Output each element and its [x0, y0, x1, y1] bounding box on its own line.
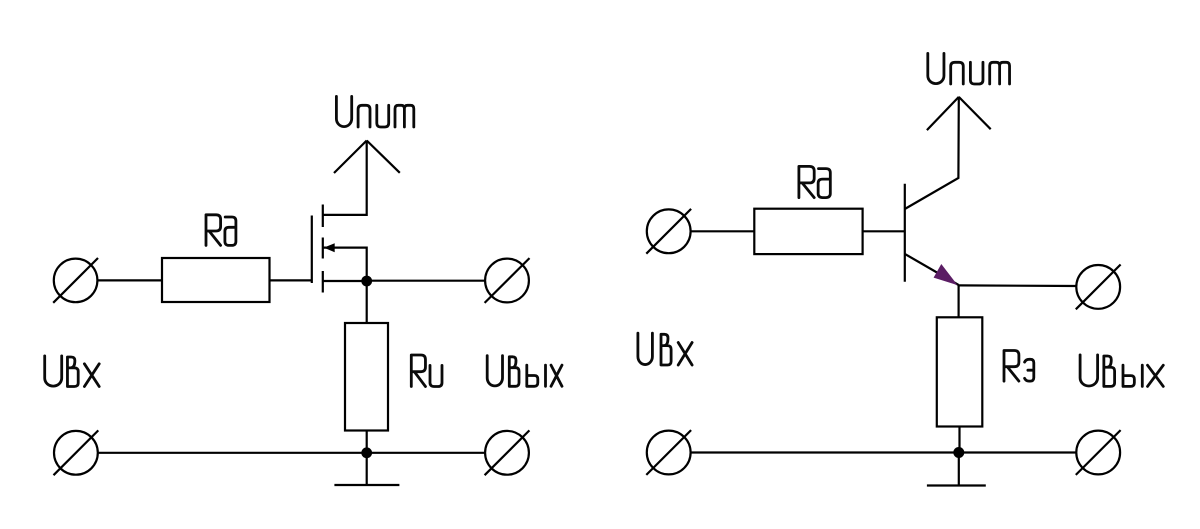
wire Rд to base — [863, 230, 905, 232]
resistor Rи — [345, 323, 388, 431]
wire Rи to bottom rail — [366, 431, 368, 453]
label Uпит (right) — [928, 53, 1010, 84]
terminal X6 (right circuit output) — [1076, 265, 1121, 310]
label Uвых (right) — [1080, 355, 1163, 387]
wire input to Rд (right) — [691, 230, 755, 232]
terminal X3 (bottom-left) — [54, 430, 99, 475]
wire node A to output terminal — [367, 280, 485, 282]
resistor Rд (right) — [754, 209, 862, 254]
terminal X7 (bottom-left, right circuit) — [646, 430, 691, 475]
MOSFET VT1 source lead — [323, 280, 367, 282]
MOSFET VT1 gate bar — [311, 216, 313, 284]
wire bottom rail (left circuit) — [98, 452, 485, 454]
wire node A down to Rи — [366, 281, 368, 323]
terminal X2 (left circuit output, top-right) — [485, 258, 530, 303]
label Uвх (left) — [45, 356, 99, 387]
wire bottom rail (right circuit) — [691, 451, 1077, 453]
wire emitter node to output terminal — [959, 284, 1077, 287]
ground (right) — [927, 453, 986, 486]
MOSFET VT1 channel (bulk dash) — [322, 238, 324, 259]
wire emitter node down to Rэ — [957, 285, 959, 317]
terminal X4 (bottom, left circuit right) — [485, 430, 530, 475]
ground (left) — [334, 453, 399, 485]
MOSFET VT1 channel (source dash) — [322, 271, 324, 293]
label Rд (right) — [799, 166, 830, 197]
wire Rд to gate — [270, 279, 312, 281]
resistor Rд (left) — [162, 258, 270, 302]
label Rэ — [1004, 351, 1034, 382]
transistor VT2 base bar — [904, 184, 906, 282]
MOSFET VT1 drain lead — [323, 141, 367, 215]
MOSFET VT1 bulk lead with arrow — [323, 243, 367, 281]
terminal X1 (left input, top-left) — [53, 258, 98, 303]
label Rд (left) — [206, 215, 236, 246]
terminal X5 (right input) — [646, 209, 691, 254]
node A (source node, left) — [361, 276, 372, 287]
node B (bottom node, left) — [361, 447, 372, 458]
label Rи — [411, 355, 442, 387]
node C (bottom node, right) — [953, 447, 964, 458]
transistor VT2 collector lead — [905, 97, 959, 209]
transistor VT2 emitter lead — [905, 254, 959, 285]
supply arrow Uпит (right) — [927, 97, 991, 130]
terminal X8 (bottom-right) — [1076, 430, 1121, 475]
wire input to Rд — [97, 279, 162, 281]
transistor VT2 emitter arrowhead (purple) — [934, 264, 958, 285]
wire Rэ to bottom rail — [958, 427, 960, 453]
resistor Rэ — [937, 317, 983, 426]
supply arrow Uпит (left) — [334, 141, 400, 174]
MOSFET VT1 channel (drain dash) — [322, 205, 324, 228]
label Uвх (right) — [638, 333, 692, 365]
label Uпит (left), drawn as GOST-style glyphs — [336, 96, 413, 127]
label Uвых (left) — [487, 356, 562, 387]
